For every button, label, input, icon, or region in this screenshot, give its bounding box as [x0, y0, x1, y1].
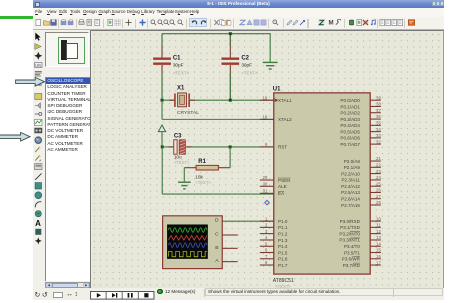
- callout arrow 2 (points at instruments mode icon): [0, 131, 31, 142]
- toolbar icon: new design: [35, 19, 42, 26]
- svg-text:P0.3/AD3: P0.3/AD3: [340, 116, 360, 121]
- toolbar icon: bill of materials: [379, 19, 386, 26]
- junction: VCC node / EA branch: [160, 145, 163, 148]
- mode icon: virtual instruments: [35, 136, 43, 144]
- U1 left pin 19: [259, 99, 273, 101]
- wire: C3 right to RST pin9: [186, 145, 274, 147]
- svg-text:11: 11: [376, 222, 381, 227]
- toolbar icon: electrical check: [370, 19, 377, 26]
- U1 left pin 29: [259, 179, 273, 181]
- svg-text:21: 21: [376, 156, 381, 161]
- svg-text:P1.0: P1.0: [278, 218, 288, 223]
- U1 left pin 31: [259, 192, 273, 194]
- toolbar icon: component doc: [356, 19, 363, 26]
- toolbar icon: copy: [219, 19, 226, 26]
- mode icon: text script: [35, 72, 42, 77]
- toolbar icon: property tool 2: [292, 19, 299, 26]
- 2d icon: circle: [35, 192, 42, 199]
- svg-text:R1: R1: [198, 158, 206, 164]
- wire: to R1 right lead: [218, 166, 230, 168]
- toolbar icon: netlist 2: [397, 19, 404, 26]
- svg-text:A: A: [35, 219, 41, 228]
- toolbar icon: zoom tool 1: [150, 19, 157, 26]
- wire: power terminal to C3: [161, 135, 163, 147]
- toolbar icon: redo: [200, 19, 207, 26]
- U1 right pin 33: [370, 136, 381, 138]
- scope pin C stub: [222, 234, 237, 236]
- svg-text:P2.5/A13: P2.5/A13: [341, 190, 360, 195]
- toolbar icon: export section: [67, 19, 74, 26]
- scope trace ch4 yellow: [168, 251, 206, 256]
- svg-text:C: C: [214, 231, 218, 237]
- U1 right pin 34: [370, 130, 381, 132]
- svg-text:XTAL1: XTAL1: [278, 97, 292, 102]
- scope pin B stub: [222, 247, 237, 249]
- svg-text:P1.2: P1.2: [278, 231, 288, 236]
- U1 left pin 2: [259, 226, 273, 228]
- U1 right pin 35: [370, 124, 381, 126]
- ground (top right): [262, 62, 277, 69]
- toolbar icon: sheet tool: [335, 19, 342, 26]
- U1 left pin 6: [259, 251, 273, 253]
- wire: top rail to C1 top: [161, 33, 163, 57]
- svg-text:P3.2/INT0: P3.2/INT0: [339, 231, 360, 236]
- svg-text:P0.6/AD6: P0.6/AD6: [340, 135, 360, 140]
- svg-text:LBL: LBL: [35, 64, 41, 68]
- svg-text:34: 34: [376, 126, 381, 131]
- wire: top rail to C2 top: [229, 33, 231, 57]
- svg-text:<TEXT>: <TEXT>: [172, 70, 189, 75]
- toolbar icon: open design: [43, 19, 50, 26]
- svg-text:33: 33: [376, 133, 381, 138]
- wire: down to ground: [269, 33, 271, 62]
- svg-text:31: 31: [262, 188, 267, 193]
- svg-text:P3.7/RD: P3.7/RD: [342, 262, 360, 267]
- svg-text:ALE: ALE: [278, 184, 287, 189]
- svg-text:28: 28: [376, 200, 381, 205]
- wire: C1 bottom to XTAL node: [161, 65, 163, 100]
- schematic editing window: [90, 30, 444, 289]
- wire: to C3 left: [162, 145, 174, 147]
- svg-text:30pF: 30pF: [172, 62, 183, 67]
- svg-text:CRYSTAL: CRYSTAL: [177, 110, 199, 116]
- svg-text:PSEN: PSEN: [278, 177, 290, 182]
- wire: down to R1 right: [229, 146, 231, 167]
- U1 right pin 11: [370, 226, 381, 228]
- wire: stem to ground2: [183, 167, 185, 181]
- toolbar icon: block move: [246, 19, 253, 26]
- svg-text:P2.4/A12: P2.4/A12: [341, 183, 360, 188]
- svg-text:14: 14: [376, 241, 381, 246]
- toolbar icon: undo: [191, 19, 198, 26]
- toolbar icon: new component: [348, 19, 355, 26]
- toolbar icon: snap grid: [114, 19, 121, 26]
- svg-text:P2.6/A14: P2.6/A14: [341, 196, 360, 201]
- toolbar icon: zoom tool 3: [163, 19, 170, 26]
- mode icon: selection arrow: [35, 33, 40, 41]
- mode icon: meter: [35, 164, 42, 170]
- ground (reset R1): [178, 182, 191, 189]
- svg-text:<TEXT>: <TEXT>: [195, 180, 211, 185]
- toolbar icon: import section: [60, 19, 67, 26]
- toolbar icon: zoom tool 4: [169, 19, 176, 26]
- scope screen: [167, 224, 208, 258]
- 2d icon: symbol: [35, 229, 41, 235]
- svg-text:P0.1/AD1: P0.1/AD1: [340, 104, 360, 109]
- svg-text:22: 22: [376, 162, 381, 167]
- U1 right pin 16: [370, 257, 381, 259]
- mode icon: bus: [35, 81, 42, 85]
- toolbar icon: origin: [125, 19, 132, 26]
- toolbar icon: toggle grid: [107, 19, 114, 26]
- toolbar icon: find component: [272, 19, 279, 26]
- toolbar icon: zoom tool 5: [177, 19, 184, 26]
- U1 right pin 23: [370, 172, 381, 174]
- U1 left pin 9: [259, 145, 273, 147]
- toolbar icon: paste: [225, 19, 232, 26]
- svg-text:P0.0/AD0: P0.0/AD0: [340, 97, 360, 102]
- node marker (blue diamond) near EA: [264, 200, 268, 204]
- oscilloscope instrument: [162, 215, 222, 268]
- U1 right pin 17: [370, 264, 381, 266]
- wire: VCC down for EA: [161, 146, 163, 193]
- svg-text:19: 19: [262, 95, 267, 100]
- svg-text:P2.0/A8: P2.0/A8: [343, 158, 360, 163]
- 2d icon: path: [35, 211, 41, 217]
- svg-text:15: 15: [376, 247, 381, 252]
- main toolbar: [33, 17, 444, 30]
- power terminal (VCC arrow): [158, 125, 165, 132]
- U1 left pin 30: [259, 185, 273, 187]
- wire: R1 left lead: [184, 166, 196, 168]
- status message: [208, 289, 341, 294]
- wire: to EA pin31: [162, 193, 274, 195]
- message indicator: [157, 289, 163, 295]
- orientation toolbar: [35, 291, 50, 299]
- svg-text:P3.4/T0: P3.4/T0: [343, 244, 359, 249]
- animation controls: [90, 291, 155, 300]
- svg-text:P2.1/A9: P2.1/A9: [343, 165, 360, 170]
- mode icon: wire label: [35, 63, 42, 68]
- svg-text:13: 13: [376, 235, 381, 240]
- U1 right pin 25: [370, 185, 381, 187]
- toolbar icon: save design: [50, 19, 57, 26]
- toolbar icon: pan: [139, 19, 146, 26]
- svg-text:P1.6: P1.6: [278, 256, 288, 261]
- svg-text:17: 17: [376, 260, 381, 265]
- svg-text:32: 32: [376, 139, 381, 144]
- svg-text:P0.2/AD2: P0.2/AD2: [340, 110, 360, 115]
- svg-text:P1.1: P1.1: [278, 225, 288, 230]
- svg-text:30: 30: [262, 181, 267, 186]
- svg-text:16: 16: [376, 253, 381, 258]
- C3 left pin: [168, 145, 173, 147]
- svg-text:P3.0/RXD: P3.0/RXD: [339, 218, 360, 223]
- scope pin A stub: [222, 260, 237, 262]
- toolbar icon: electrical report: [385, 19, 392, 26]
- toolbar icon: zoom tool 2: [157, 19, 164, 26]
- left mode toolbar: [33, 30, 46, 245]
- svg-text:P1.5: P1.5: [278, 250, 288, 255]
- 2d icon: text: [35, 219, 41, 228]
- mode icon: junction dot: [34, 52, 42, 60]
- wire: to XTAL2 pin18: [162, 118, 274, 120]
- wire: node to crystal left: [162, 99, 174, 101]
- svg-text:P0.5/AD5: P0.5/AD5: [340, 129, 360, 134]
- svg-text:P1.3: P1.3: [278, 237, 288, 242]
- svg-text:RST: RST: [278, 144, 287, 149]
- mode icon: current probe: [35, 155, 41, 163]
- capacitor C1 30pF: [153, 58, 171, 63]
- svg-text:10k: 10k: [195, 174, 203, 179]
- U1 right pin 15: [370, 251, 381, 253]
- left panel: [33, 30, 90, 289]
- svg-text:37: 37: [376, 107, 381, 112]
- svg-text:P3.5/T1: P3.5/T1: [343, 250, 359, 255]
- mode icon: terminal: [35, 103, 41, 108]
- resistor R1 10k: [196, 165, 218, 170]
- toolbar icon: mark output area: [86, 19, 93, 26]
- U1 right pin 12: [370, 232, 381, 234]
- svg-text:P3.6/WR: P3.6/WR: [341, 256, 360, 261]
- svg-text:25: 25: [376, 181, 381, 186]
- U1 left pin 18: [259, 118, 273, 120]
- title bar: [33, 0, 444, 8]
- toolbar icon: block rotate: [253, 19, 260, 26]
- svg-text:35: 35: [376, 120, 381, 125]
- svg-text:39: 39: [376, 95, 381, 100]
- C3 right pin: [186, 145, 191, 147]
- U1 right pin 21: [370, 160, 381, 162]
- schematic background: [91, 31, 442, 288]
- svg-text:C2: C2: [241, 55, 249, 61]
- crystal X1: [173, 93, 175, 107]
- svg-text:D: D: [214, 217, 218, 223]
- wire: crystal right to XTAL1 pin19: [189, 99, 273, 101]
- toolbar icon: block delete: [260, 19, 267, 26]
- svg-text:X1: X1: [177, 85, 185, 91]
- svg-text:<TEXT>: <TEXT>: [173, 159, 189, 164]
- junction: RST net / R1 branch: [228, 145, 231, 148]
- svg-text:36: 36: [376, 114, 381, 119]
- U1 left pin 4: [259, 238, 273, 240]
- toolbar icon: property assign: [299, 19, 306, 26]
- menu bar: [33, 8, 444, 17]
- toolbar icon: new sheet: [328, 19, 335, 26]
- scope trace ch2 red: [168, 235, 206, 240]
- crystal left pin: [169, 99, 174, 101]
- U1 right pin 37: [370, 111, 381, 113]
- svg-text:27: 27: [376, 193, 381, 198]
- U1 right pin 22: [370, 166, 381, 168]
- mode icon: subcircuit: [35, 94, 42, 100]
- U1 left pin 3: [259, 232, 273, 234]
- U1 left pin 1: [259, 220, 273, 222]
- U1 left pin 8: [259, 264, 273, 266]
- svg-text:C1: C1: [172, 55, 180, 61]
- svg-text:C3: C3: [173, 133, 181, 139]
- U1 right pin 32: [370, 143, 381, 145]
- bottom bar: [33, 288, 444, 301]
- svg-text:P0.4/AD4: P0.4/AD4: [340, 123, 360, 128]
- 2d icon: box: [35, 183, 41, 189]
- wire: down to XTAL2 row: [161, 100, 163, 119]
- U1 right pin 36: [370, 118, 381, 120]
- toolbar icon: export graphics: [94, 19, 101, 26]
- U1 right pin 14: [370, 245, 381, 247]
- toolbar icon: netlist 1: [391, 19, 398, 26]
- svg-text:23: 23: [376, 168, 381, 173]
- mode icon: graph: [35, 119, 42, 125]
- junction: C1/crystal/XTAL2 branch: [160, 98, 163, 101]
- green annotation line: [0, 16, 33, 19]
- junction: C2/top rail: [228, 32, 231, 35]
- svg-text:P1.4: P1.4: [278, 244, 288, 249]
- U1 right pin 24: [370, 178, 381, 180]
- capacitor C2 30pF: [221, 58, 239, 63]
- preview scope glyph: [61, 40, 67, 60]
- 2d icon: markers: [35, 237, 42, 244]
- toolbar icon: property tool 1: [286, 19, 293, 26]
- 2d icon: line: [35, 173, 41, 179]
- U1 right pin 39: [370, 99, 381, 101]
- svg-text:18: 18: [262, 114, 267, 119]
- U1 right pin 13: [370, 238, 381, 240]
- toolbar icon: block copy: [239, 19, 246, 26]
- toolbar icon: design explorer: [318, 19, 325, 26]
- svg-text:12: 12: [376, 228, 381, 233]
- svg-text:<TEXT>: <TEXT>: [241, 70, 258, 75]
- XTAL1 clock arrow: [274, 98, 278, 102]
- U1 right pin 10: [370, 220, 381, 222]
- wire: top rail C1/C2 to ground: [162, 32, 270, 34]
- 2d icon: arc: [35, 202, 41, 208]
- U1 right pin 38: [370, 105, 381, 107]
- svg-text:P2.3/A11: P2.3/A11: [341, 177, 360, 182]
- U1 right pin 26: [370, 191, 381, 193]
- toolbar icon: print: [78, 19, 85, 26]
- scope trace ch3 blue: [168, 242, 206, 247]
- wire: scope D to P1.0 pin1: [222, 220, 273, 222]
- svg-text:10: 10: [376, 216, 381, 221]
- junction: C2 on XTAL1 net: [228, 98, 231, 101]
- scope trace ch1 green: [168, 227, 206, 232]
- svg-text:EA: EA: [278, 191, 285, 196]
- svg-text:P2.2/A10: P2.2/A10: [341, 171, 360, 176]
- toolbar icon: remove component: [362, 19, 369, 26]
- toolbar icon: netlist to ARES: [408, 19, 415, 26]
- overview (preview) pane: [45, 32, 88, 66]
- svg-text:U1: U1: [272, 86, 280, 92]
- svg-text:29: 29: [262, 175, 267, 180]
- svg-text:30pF: 30pF: [241, 62, 252, 67]
- svg-text:26: 26: [376, 187, 381, 192]
- mode icon: tape recorder: [35, 128, 42, 133]
- svg-text:24: 24: [376, 175, 381, 180]
- callout arrow 1 (points at OSCILLOSCOPE): [15, 76, 46, 87]
- svg-text:P1.7: P1.7: [278, 262, 288, 267]
- U1 left pin 5: [259, 245, 273, 247]
- U1 left pin 7: [259, 257, 273, 259]
- selector scrollbar: [45, 282, 90, 288]
- capacitor C3 10u (electrolytic): [173, 139, 176, 153]
- svg-text:P3.1/TXD: P3.1/TXD: [340, 225, 360, 230]
- mode icon: device pin: [35, 113, 42, 116]
- preview sheet border: [58, 37, 85, 64]
- mode icon: component: [35, 44, 42, 50]
- svg-text:M: M: [328, 20, 333, 26]
- crystal right pin: [189, 99, 194, 101]
- U1 right pin 28: [370, 203, 381, 205]
- mode icon: voltage probe: [35, 146, 41, 152]
- svg-text:P0.7/AD7: P0.7/AD7: [340, 141, 360, 146]
- svg-text:XTAL2: XTAL2: [278, 117, 292, 122]
- svg-text:P3.3/INT1: P3.3/INT1: [339, 237, 360, 242]
- object selector: instruments list: [45, 77, 89, 281]
- svg-text:38: 38: [376, 101, 381, 106]
- U1 right pin 27: [370, 197, 381, 199]
- wire: C2 bottom to XTAL1 net: [229, 65, 231, 100]
- op U1 AT89C51 body: [273, 92, 369, 273]
- svg-text:P2.7/A15: P2.7/A15: [341, 202, 360, 207]
- toolbar icon: cut: [213, 19, 220, 26]
- svg-text:A: A: [39, 159, 41, 163]
